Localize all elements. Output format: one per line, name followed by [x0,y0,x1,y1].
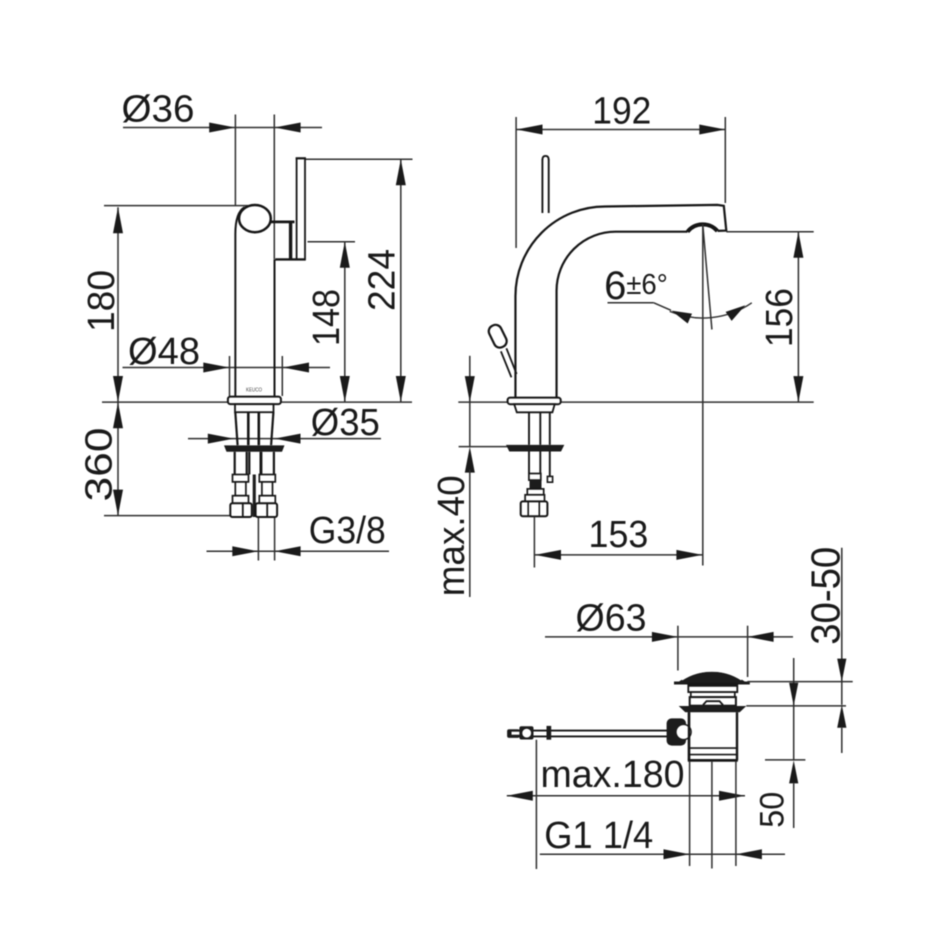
svg-text:Ø63: Ø63 [576,598,647,640]
svg-text:KEUCO: KEUCO [246,388,262,394]
svg-text:Ø48: Ø48 [128,331,200,373]
svg-text:max.180: max.180 [541,754,685,796]
svg-text:G3/8: G3/8 [309,510,386,552]
svg-text:±6°: ±6° [626,269,668,301]
svg-text:180: 180 [81,270,123,332]
svg-text:224: 224 [362,249,404,311]
svg-text:30-50: 30-50 [802,547,848,645]
svg-text:360: 360 [79,428,121,502]
svg-text:156: 156 [759,288,801,347]
svg-text:153: 153 [589,514,649,556]
svg-text:Ø36: Ø36 [122,89,195,131]
svg-text:6: 6 [604,264,626,308]
svg-text:148: 148 [306,289,348,346]
svg-text:192: 192 [592,90,651,132]
svg-text:Ø35: Ø35 [311,402,380,444]
svg-text:50: 50 [753,792,791,828]
svg-text:G1 1/4: G1 1/4 [544,815,653,857]
svg-text:max.40: max.40 [431,475,473,596]
